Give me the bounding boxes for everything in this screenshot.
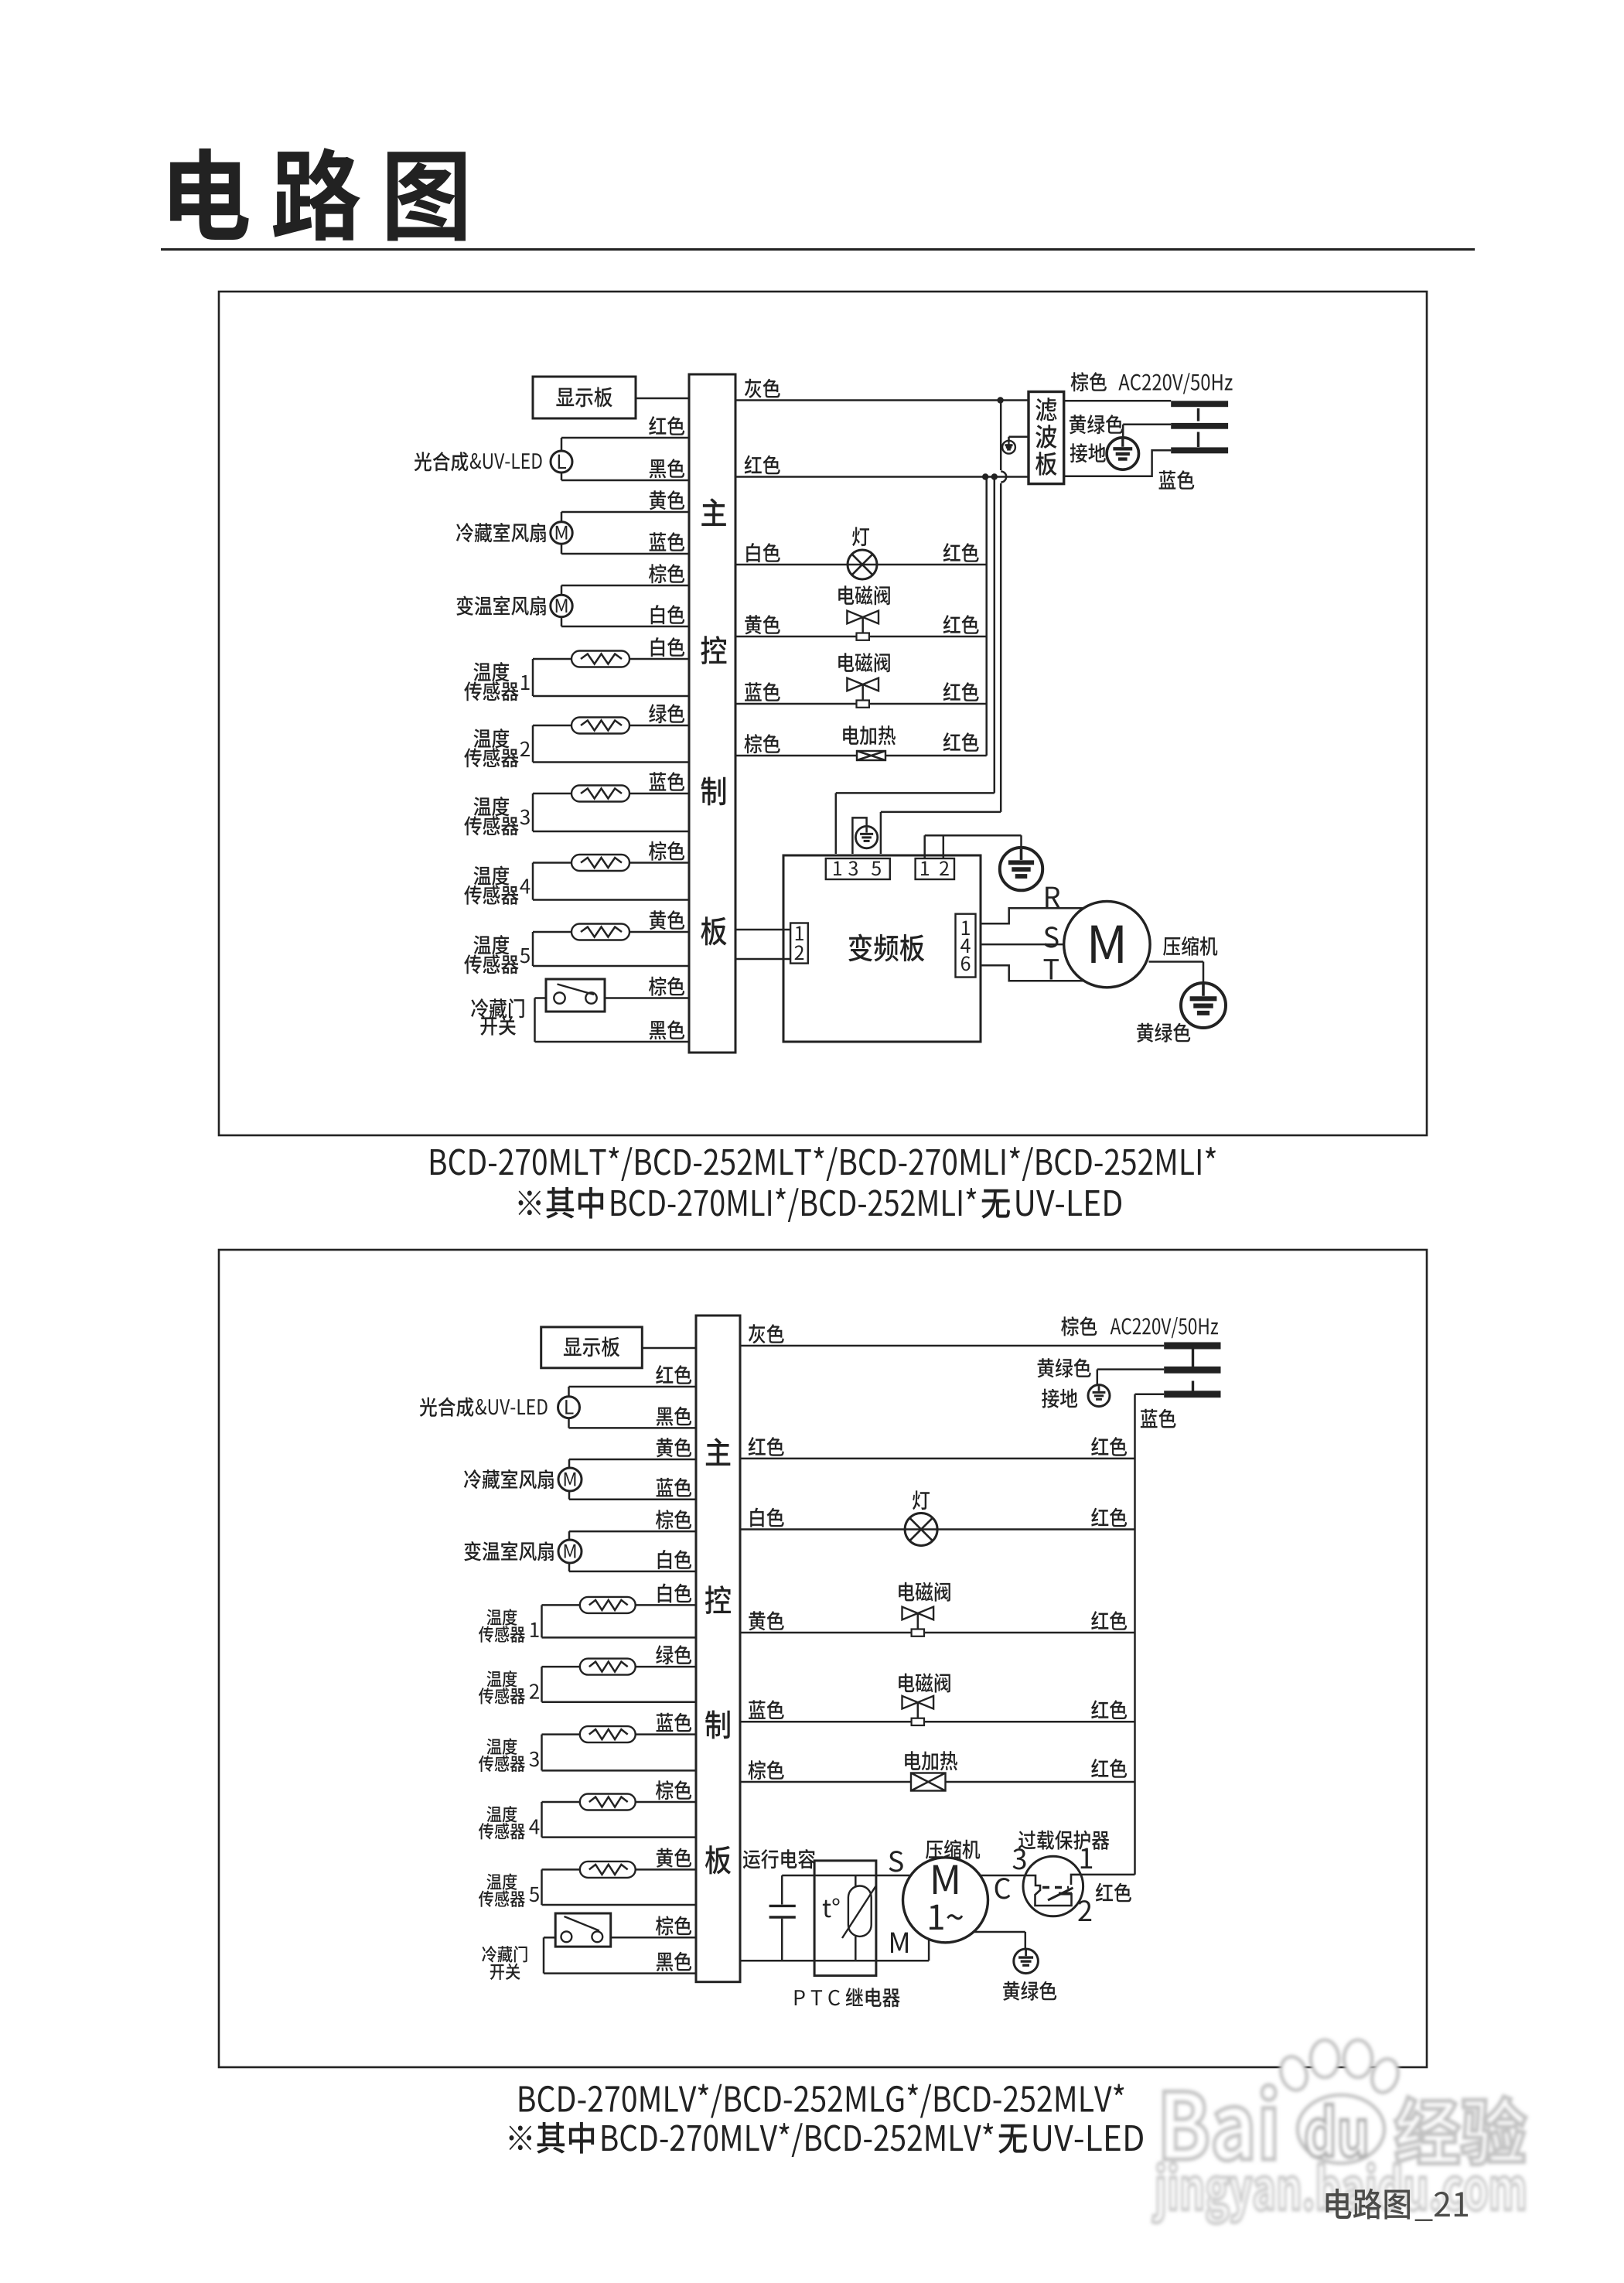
compressor motor M3 压缩机 1~ (schematic 2) [903, 1858, 988, 1943]
connector J4 pins 1 4 6 (inverter right) [956, 914, 976, 978]
label T [1044, 959, 1059, 979]
thermistor RT PTC (schematic 2) [855, 1875, 857, 1886]
label 黄色 sensor 5 (schematic 2) [657, 1848, 691, 1867]
title underline rule [161, 248, 1475, 251]
label 绿色 sensor 2 (schematic 2) [656, 1645, 691, 1664]
wire: compressor to earth (schematic 1) [1149, 961, 1204, 963]
motor M1 冷藏室风扇 (schematic 2) [568, 1459, 571, 1469]
label 接地 [1070, 443, 1106, 462]
wire S phase: capacitor junction through PTC to compressor [782, 1875, 910, 1877]
label 光合成&UV-LED (schematic 1) [415, 452, 469, 471]
label 蓝色 neutral (schematic 2) [1141, 1409, 1176, 1428]
label 红色 right (s2 valve2) [1091, 1700, 1127, 1719]
label 红色 heater right [943, 732, 979, 752]
temperature sensor RT3 温度传感器3 (schematic 1) [533, 793, 689, 795]
filter board 滤波板 (schematic 1) [1029, 392, 1064, 484]
label 冷藏室风扇 (schematic 1) [456, 523, 546, 542]
label 红色 right (s2 heater) [1091, 1759, 1127, 1778]
label 温度传感器5 (schematic 2) [486, 1873, 517, 1889]
motor M1 冷藏室风扇 fridge fan (schematic 1) [561, 512, 563, 523]
solenoid valve YV2 电磁阀 (schematic 1) [847, 678, 862, 691]
label 蓝色 valve row [745, 682, 780, 701]
wire red bus A (component rows feed) [985, 477, 988, 756]
label R [1046, 887, 1059, 907]
page footer 电路图_21 [1326, 2189, 1410, 2220]
wire grey bus C to inverter pin 5 (with hop over red wire) [1000, 401, 1002, 471]
wire: compressor shell to earth (schematic 2) [974, 1931, 1025, 1933]
wire 黄绿色 earth: plug to earth symbol [1123, 424, 1171, 426]
label 白色 lamp (s2) [750, 1508, 784, 1527]
main control board U1 (schematic 1) [689, 374, 735, 1053]
caption: model list 1 [431, 1147, 1216, 1181]
label 变温室风扇 (schematic 2) [464, 1541, 553, 1561]
wire 红色 row (schematic 2) [740, 1458, 1135, 1460]
wire 黄色 (yellow) fan1 top (schematic 1) [561, 511, 689, 514]
label 电加热 (s2) [905, 1751, 957, 1770]
label 红色 left (s2) [749, 1437, 784, 1456]
temperature sensor RT5 温度传感器5 (schematic 2) [542, 1868, 697, 1871]
label 黑色 door (schematic 2) [657, 1952, 691, 1971]
capacitor C1 运行电容 (schematic 2) [781, 1875, 783, 1905]
temperature sensor RT1 温度传感器1 (schematic 1) [533, 658, 689, 660]
label 棕色 sensor 4 (schematic 2) [656, 1780, 691, 1800]
label 冷藏门开关 (schematic 2) [482, 1946, 527, 1963]
label pin 3 [1013, 1848, 1026, 1869]
wire 棕色 fan2 top (schematic 2) [569, 1531, 696, 1533]
solenoid valve YV1 电磁阀 (schematic 1) [847, 611, 862, 624]
wire 黑色 (black) UV-LED bottom (schematic 1) [561, 479, 689, 482]
label 光合成&UV-LED (schematic 2) [420, 1397, 474, 1417]
label 电加热 [843, 725, 896, 745]
wire red bus B to inverter pin 1 [994, 477, 996, 793]
wire 黄色 (yellow) solenoid valve 1 row (schematic 1) [735, 636, 987, 638]
label 冷藏室风扇 (schematic 2) [464, 1469, 554, 1489]
label 棕色 (s2 fan2) [656, 1510, 691, 1529]
wire: main board to inverter J3 pin1 [735, 929, 790, 931]
label 温度传感器4 [474, 866, 510, 886]
label 白色 sensor 1 (schematic 2) [658, 1583, 691, 1602]
temperature sensor RT5 温度传感器5 (schematic 1) [533, 931, 689, 933]
wire 棕色 (brown) heater row (schematic 1) [735, 755, 987, 757]
wire 蓝色 neutral: filter board to plug [1064, 450, 1172, 476]
label 黑色 (s2 uv) [657, 1406, 691, 1425]
label 冷藏门开关 (schematic 1) [471, 998, 524, 1018]
lamp L1 光合成&UV-LED (schematic 1) [561, 438, 563, 451]
label 红色 lamp row right [943, 543, 979, 562]
wire C terminal: compressor to overload protector [980, 1875, 1025, 1877]
label 棕色 mains [1071, 372, 1107, 391]
label 电磁阀 valve 1 [838, 585, 890, 605]
wire: main board to inverter J3 pin2 [735, 958, 790, 961]
wire 红色 (red) net: main board to filter board [735, 476, 1029, 478]
label 白色 [651, 605, 684, 624]
label 棕色 door (schematic 2) [656, 1916, 691, 1935]
caption: note 1 (no UV-LED models) [519, 1187, 604, 1219]
caption: note 2 (no UV-LED models) [510, 2122, 595, 2154]
wire 红色 (red) UV-LED top (schematic 1) [561, 437, 689, 439]
label 红色 valve1 right [943, 615, 979, 634]
temperature sensor RT1 温度传感器1 (schematic 2) [542, 1604, 697, 1606]
label 蓝色 (s2 fan1) [657, 1478, 692, 1497]
label 蓝色 [650, 532, 685, 551]
label 棕色 [649, 564, 684, 583]
label 电磁阀 valve1 (s2) [899, 1582, 950, 1602]
main control board label 主控制板 (schematic 2) [706, 1438, 731, 1466]
wire M terminal: main board to compressor (schematic 2) [740, 1960, 929, 1962]
label 红色 right (s2 row1) [1091, 1437, 1127, 1456]
label 棕色 (s2 heater) [748, 1760, 783, 1780]
label 温度传感器3 [474, 797, 510, 816]
wire 黑色 UV-LED bottom (schematic 2) [569, 1427, 697, 1429]
ground: inverter output earth (schematic 1) [1000, 848, 1042, 890]
compressor motor M3 压缩机 (schematic 1) [1064, 901, 1150, 987]
wire 黑色 door switch bottom (schematic 2) [543, 1937, 545, 1973]
label 黄绿色 earth wire [1070, 415, 1123, 434]
label 黄绿色 (schematic 2 compressor earth) [1003, 1981, 1056, 2001]
wire R phase to compressor [981, 908, 1084, 923]
heater EH1 电加热 (schematic 2) [911, 1773, 946, 1791]
label PTC继电器 [795, 1990, 840, 2005]
temperature sensor RT4 温度传感器4 (schematic 2) [542, 1801, 697, 1804]
caption: model list 2 [520, 2084, 1124, 2118]
label 黄绿色 (schematic 1 compressor earth) [1137, 1023, 1190, 1043]
wire 白色 (white) lamp row (schematic 1) [735, 564, 987, 566]
label 黄色 valve row [745, 615, 780, 634]
label 红色 valve2 right [943, 682, 979, 701]
wire: inverter J2 to earth [923, 835, 926, 858]
connector J2 pins 1 2 (inverter top-right) [916, 858, 954, 879]
label 温度传感器2 (schematic 2) [486, 1670, 517, 1687]
label 温度传感器4 (schematic 2) [486, 1806, 517, 1822]
ground: compressor earth 黄绿色 (schematic 2) [1014, 1949, 1039, 1974]
ground: mains protective earth 接地 (schematic 2) [1088, 1385, 1110, 1407]
ground: mains protective earth 接地 (schematic 1) [1107, 438, 1138, 469]
label 灰色 (schematic 2) [749, 1324, 784, 1343]
label 灯 (s2) [913, 1490, 930, 1510]
motor M2 变温室风扇 (schematic 2) [568, 1531, 571, 1541]
mains plug AC220V/50Hz (schematic 2) [1164, 1343, 1220, 1350]
label 白色 (s2 fan2) [658, 1550, 691, 1569]
label 变温室风扇 (schematic 1) [456, 595, 545, 615]
inverter board 变频板 (schematic 1) [783, 855, 981, 1042]
label 黄绿色 (schematic 2 plug) [1038, 1358, 1091, 1377]
wire 棕色 (brown) door switch top (schematic 1) [605, 997, 689, 999]
label 红色 (s2 uv) [656, 1365, 691, 1384]
switch S1 冷藏门开关 (schematic 2) [555, 1913, 611, 1947]
label 黄色 [650, 490, 684, 510]
wire 蓝色 valve2 row (schematic 2) [740, 1721, 1135, 1723]
label 红色 overload right [1096, 1883, 1131, 1902]
connector J1 pins 1 3 5 (inverter top-left) [826, 858, 890, 879]
schematic box 2 frame [219, 1250, 1427, 2067]
wire: display board to main board [636, 398, 689, 400]
wire S phase to compressor [981, 944, 1064, 946]
ground: filter board chassis earth (small) [1009, 436, 1029, 439]
label 白色 sensor 1 wire color [651, 637, 684, 657]
overload protector FR1 过载保护器 (schematic 2) [1023, 1856, 1083, 1916]
label 压缩机 (schematic 1) [1163, 937, 1217, 956]
label 温度传感器3 (schematic 2) [486, 1739, 517, 1755]
schematic box 1 frame [219, 292, 1427, 1135]
label 蓝色 (s2 valve2) [749, 1700, 784, 1719]
label 灯 [852, 527, 869, 546]
wire: display board to main board (schematic 2) [642, 1347, 696, 1350]
solenoid valve YV1 电磁阀 (schematic 2) [902, 1607, 918, 1620]
label S [1044, 927, 1058, 947]
wire 红色 UV-LED top (schematic 2) [569, 1386, 697, 1388]
label AC220V/50Hz [1118, 373, 1232, 394]
label 棕色 sensor 4 wire color [649, 841, 684, 861]
wire 白色 (white) fan2 bottom (schematic 1) [561, 626, 689, 628]
connector J3 pins 1 2 (inverter left) [790, 923, 808, 964]
label C terminal [995, 1878, 1011, 1899]
lamp L1 光合成&UV-LED (schematic 2) [568, 1387, 570, 1397]
temperature sensor RT2 温度传感器2 (schematic 2) [542, 1666, 697, 1668]
main control board U1 (schematic 2) [696, 1316, 740, 1982]
wire 蓝色 (blue) solenoid valve 2 row (schematic 1) [735, 703, 987, 705]
label pin 2 [1078, 1900, 1091, 1921]
wire 棕色 (brown) fan2 top (schematic 1) [561, 585, 689, 587]
label 黄色 sensor 5 wire color [650, 910, 684, 930]
label 温度传感器5 [474, 935, 510, 954]
label 红色 [649, 416, 684, 435]
label 棕色 heater row [744, 734, 780, 753]
wire: overload pin1 to red bus (schematic 2) [1080, 1874, 1135, 1876]
label 蓝色 sensor 3 (schematic 2) [657, 1713, 692, 1732]
label M terminal [891, 1933, 908, 1953]
label AC220V/50Hz (schematic 2) [1111, 1317, 1218, 1338]
label 电磁阀 valve 2 [838, 653, 890, 672]
wire 黄色 valve1 row (schematic 2) [740, 1632, 1135, 1634]
lamp EL1 灯 (schematic 1) [848, 550, 877, 579]
label 白色 lamp row [746, 543, 780, 562]
label 棕色 mains (schematic 2) [1061, 1316, 1097, 1336]
temperature sensor RT4 温度传感器4 (schematic 1) [533, 862, 689, 864]
ground: inverter earth at J1 pin 3 (small) [852, 817, 866, 854]
wire red/neutral bus (schematic 2 right) [1134, 1394, 1136, 1875]
wire 白色 fan2 bottom (schematic 2) [569, 1571, 696, 1573]
label 温度传感器1 [474, 662, 510, 681]
label pin 1 [1081, 1848, 1092, 1868]
heater EH1 电加热 (schematic 1) [857, 751, 885, 760]
display board module 显示板 (schematic 2) [541, 1327, 643, 1368]
label 温度传感器2 [474, 729, 510, 748]
display board module 显示板 (schematic 1) [533, 377, 636, 418]
label 灰色 [745, 379, 780, 398]
temperature sensor RT3 温度传感器3 (schematic 2) [542, 1733, 697, 1735]
temperature sensor RT2 温度传感器2 (schematic 1) [533, 725, 689, 727]
wire 蓝色 (blue) fan1 bottom (schematic 1) [561, 553, 689, 555]
junction node red-busB [991, 473, 998, 479]
label 黄色 (s2 valve1) [749, 1611, 783, 1630]
mains plug AC220V/50Hz (schematic 1) [1171, 401, 1228, 407]
label 黑色 door switch [650, 1020, 684, 1039]
solenoid valve YV2 电磁阀 (schematic 2) [902, 1696, 918, 1709]
watermark: Baidu Jingyan logo [1152, 2040, 1526, 2223]
label 压缩机 (schematic 2) [926, 1840, 980, 1859]
wire 蓝色 neutral from plug to bus (schematic 2) [1135, 1393, 1165, 1395]
page title 电路图 [170, 148, 466, 241]
label 黄色 (s2 fan1) [657, 1438, 691, 1457]
wire 黄色 fan1 top (schematic 2) [569, 1459, 696, 1461]
wire 棕色 mains line: filter board to plug [1064, 400, 1172, 402]
wire 白色 lamp row (schematic 2) [740, 1528, 1135, 1531]
wire 灰色 net: main board to plug L (schematic 2) [740, 1345, 1164, 1347]
label 红色 [745, 456, 780, 475]
motor M2 变温室风扇 variable-temp fan (schematic 1) [561, 585, 563, 595]
label 电磁阀 valve2 (s2) [899, 1674, 950, 1693]
label 运行电容 run capacitor [743, 1849, 815, 1868]
PTC relay box PTC继电器 (schematic 2) [814, 1861, 876, 1976]
ground: compressor earth 黄绿色 (schematic 1) [1181, 983, 1226, 1028]
label 过载保护器 [1018, 1831, 1110, 1850]
wire 棕色 door switch top (schematic 2) [611, 1937, 696, 1939]
main control board label 主控制板 (schematic 1) [701, 498, 726, 526]
label 绿色 sensor 2 wire color [649, 704, 684, 723]
label 棕色 door switch [649, 977, 684, 996]
label 温度传感器1 (schematic 2) [486, 1609, 517, 1625]
wire 灰色 (grey) net: main board to filter board [735, 399, 1029, 401]
junction node red-busA [982, 473, 988, 479]
label 红色 right (s2 lamp) [1091, 1508, 1127, 1527]
label 蓝色 neutral [1159, 470, 1195, 490]
switch S1 冷藏门开关 door switch (schematic 1) [546, 979, 605, 1012]
label 蓝色 sensor 3 wire color [650, 772, 685, 791]
wire 蓝色 fan1 bottom (schematic 2) [569, 1498, 696, 1500]
label 黑色 [650, 459, 684, 478]
label 红色 right (s2 valve1) [1091, 1611, 1127, 1630]
wire 棕色 heater row (schematic 2) [740, 1781, 1135, 1783]
wire T phase to compressor [981, 965, 1084, 981]
lamp EL1 灯 (schematic 2) [905, 1513, 937, 1546]
wire 黄绿色 earth to plug (schematic 2) [1097, 1368, 1164, 1370]
wire 黑色 (black) door switch bottom (schematic 1) [534, 998, 536, 1043]
junction node on grey wire [997, 397, 1003, 403]
label S terminal [889, 1851, 903, 1872]
label 接地 (schematic 2) [1042, 1389, 1077, 1408]
label t° thermistor [823, 1899, 840, 1918]
